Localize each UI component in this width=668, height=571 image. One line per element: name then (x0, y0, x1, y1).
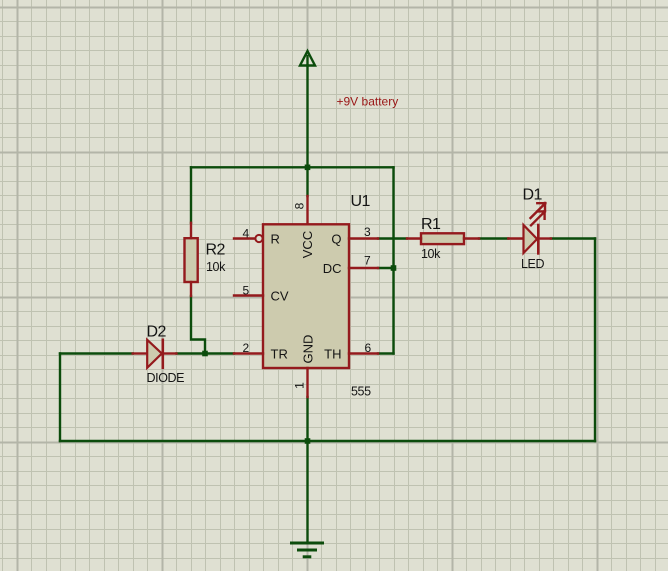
wire R2 bottom jog (191, 296, 205, 354)
svg-text:4: 4 (243, 227, 250, 241)
U1 pin 2 stub (234, 352, 263, 354)
svg-text:7: 7 (364, 254, 371, 268)
wire D2 cathode to TR (177, 352, 235, 354)
junction at DC/loop (391, 265, 397, 271)
svg-text:CV: CV (271, 289, 289, 304)
wire VCC vertical (306, 66, 308, 197)
wire R1 to LED (479, 237, 508, 239)
svg-text:5: 5 (243, 284, 250, 298)
wire TH to loop (378, 352, 394, 354)
junction at GND/bottom wire (305, 438, 311, 444)
junction at D2/TR/R2 node (202, 351, 208, 357)
svg-text:TR: TR (271, 347, 288, 362)
wire Q to R1 (378, 237, 407, 239)
wire R2 top (190, 167, 192, 223)
D1 anode stub (508, 237, 522, 239)
wire left vertical (59, 354, 61, 442)
svg-text:Q: Q (331, 232, 341, 247)
D1 arrows (531, 203, 546, 225)
wire LED to right vertical (551, 237, 595, 239)
svg-text:8: 8 (293, 202, 307, 209)
wire bottom horizontal (60, 440, 595, 442)
R1 left stub (407, 237, 421, 239)
power symbol +9V (arrow up) (300, 51, 315, 66)
svg-text:DIODE: DIODE (147, 371, 185, 385)
resistor R2 body (185, 238, 198, 282)
svg-text:TH: TH (324, 347, 341, 362)
svg-text:LED: LED (521, 257, 544, 271)
svg-text:R2: R2 (206, 242, 226, 259)
wire DC to loop (378, 267, 394, 269)
svg-text:+9V battery: +9V battery (337, 95, 399, 109)
wire bottom to ground symbol (306, 441, 308, 543)
R2 top stub (190, 223, 192, 238)
U1 pin 5 stub (234, 294, 263, 296)
svg-text:D1: D1 (523, 187, 543, 204)
svg-text:U1: U1 (351, 193, 371, 210)
U1 pin 8 stub (306, 196, 308, 224)
D1 cathode stub (538, 237, 551, 239)
resistor R1 body (421, 233, 464, 244)
svg-text:DC: DC (323, 261, 342, 276)
LED D1 (524, 225, 539, 253)
U1 pin 6 stub (349, 352, 378, 354)
svg-text:GND: GND (301, 335, 316, 364)
wire left to D2 anode (60, 352, 133, 354)
wire right loop vertical (392, 167, 394, 353)
svg-text:10k: 10k (206, 260, 226, 274)
U1 pin 7 stub (349, 267, 378, 269)
svg-text:VCC: VCC (300, 231, 315, 258)
svg-text:1: 1 (293, 382, 307, 389)
ground (292, 543, 323, 557)
D2 cathode stub (164, 352, 176, 354)
R1 right stub (464, 237, 479, 239)
diode D2 (147, 340, 163, 368)
wire right vertical (594, 239, 596, 442)
R2 bottom stub (190, 282, 192, 296)
wire top horizontal (191, 166, 394, 168)
wire GND pin1 to bottom (306, 397, 308, 441)
svg-text:10k: 10k (421, 247, 441, 261)
svg-text:R1: R1 (421, 216, 441, 233)
svg-text:555: 555 (351, 385, 371, 399)
D2 anode stub (133, 352, 146, 354)
svg-text:6: 6 (365, 341, 372, 355)
U1 pin 4 stub with bubble (234, 235, 263, 242)
U1 pin 3 stub (349, 237, 378, 239)
IC U1 555 timer body (263, 224, 349, 368)
U1 pin 1 stub (306, 368, 308, 397)
junction at VCC/top wire (305, 165, 311, 171)
svg-text:R: R (271, 232, 280, 247)
svg-text:2: 2 (243, 341, 250, 355)
svg-text:D2: D2 (147, 324, 167, 341)
svg-text:3: 3 (364, 225, 371, 239)
